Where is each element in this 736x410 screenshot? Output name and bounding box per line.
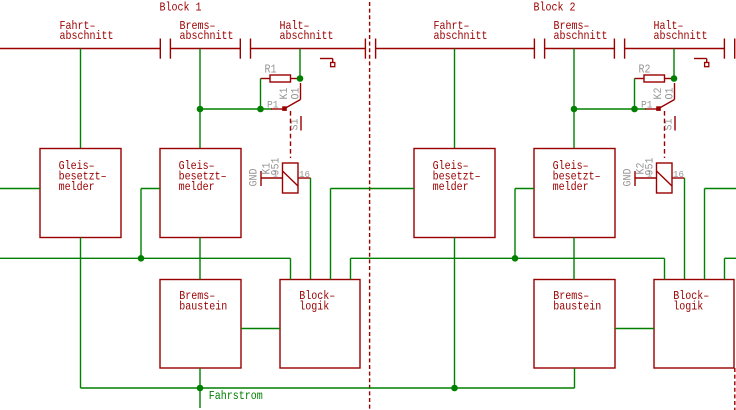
box Blocklogik block 1 <box>280 280 360 369</box>
wire GBM1 block1 down to Fahrstrom <box>80 238 82 389</box>
wire bus into Blocklogik pin1 block 1 <box>290 258 292 279</box>
contact S1 line block 1 <box>300 116 302 131</box>
wire bus from previous block into Blocklogik 1 <box>0 257 291 259</box>
wire Blocklogik 2 bus to next block <box>725 257 736 259</box>
svg-text:R2: R2 <box>639 63 651 76</box>
svg-text:abschnitt: abschnitt <box>60 30 114 43</box>
wire resistor left to P1 node block 1 <box>260 79 262 110</box>
wire Blocklogik 2 to next block <box>705 188 736 190</box>
wire GBM2 left input block 1 <box>141 189 160 259</box>
svg-text:P1: P1 <box>641 99 653 111</box>
junction GBM2 input on bus block 1 <box>138 255 145 262</box>
relay contact K2 pole P1 block 2 <box>645 107 660 111</box>
wire previous block logic to GBM1 block 1 <box>0 188 40 190</box>
wire Brems tap to P1 node block 1 <box>200 108 272 110</box>
Fahrstrom bus line <box>81 387 575 389</box>
wire Blocklogik 1 to GBM1 block 2 <box>331 188 415 190</box>
wire Blocklogik pin3 riser block 1 <box>330 189 332 280</box>
svg-text:melder: melder <box>553 181 589 194</box>
label Brems-abschnitt block 1 <box>180 20 234 43</box>
wire Halt rail tap block 1 <box>299 49 301 82</box>
svg-text:Fahrstrom: Fahrstrom <box>209 390 263 403</box>
junction resistor-left/P1 node block 1 <box>257 106 264 113</box>
label Halt-abschnitt block 2 <box>654 20 708 43</box>
svg-text:16: 16 <box>673 170 684 180</box>
svg-text:GND: GND <box>249 168 261 186</box>
svg-text:16: 16 <box>299 170 310 180</box>
box Bremsbaustein block 2 <box>534 280 615 369</box>
svg-text:baustein: baustein <box>553 300 601 313</box>
relay contact K1 pole P1 block 1 <box>271 107 286 111</box>
svg-text:GND: GND <box>623 168 635 186</box>
rail insulation gap bars <box>160 39 734 59</box>
wire relay pin16 to Block-logik block 1 <box>310 178 312 280</box>
wire Bremsbaustein 2 to Fahrstrom corner <box>574 368 576 388</box>
wire bus into Blocklogik pin1 block 2 <box>664 258 666 279</box>
svg-text:logik: logik <box>299 300 329 313</box>
svg-text:abschnitt: abschnitt <box>434 30 488 43</box>
label Fahrt-abschnitt block 1 <box>60 20 114 43</box>
box Bremsbaustein block 1 <box>160 280 241 369</box>
svg-text:S1: S1 <box>664 118 676 130</box>
junction Bremsbaustein 1 on Fahrstrom <box>197 385 204 392</box>
resistor R2 <box>635 75 675 82</box>
actuating link dashed K2 block 2 <box>664 111 666 158</box>
svg-text:abschnitt: abschnitt <box>654 30 708 43</box>
rail line segments <box>0 48 724 50</box>
svg-text:abschnitt: abschnitt <box>180 30 234 43</box>
junction resistor-left/P1 node block 2 <box>631 106 638 113</box>
svg-text:abschnitt: abschnitt <box>554 30 608 43</box>
wire Blocklogik pin3 riser block 2 <box>704 189 706 280</box>
svg-text:1: 1 <box>273 170 278 180</box>
box Blocklogik block 2 <box>654 280 734 369</box>
box Gleisbesetztmelder 1 block 1 <box>40 149 121 238</box>
wire Fahrt rail tap block 2 <box>454 49 456 149</box>
svg-text:P1: P1 <box>267 99 279 111</box>
svg-text:R1: R1 <box>265 63 277 76</box>
wire Blocklogik pin4 riser block 2 <box>724 258 726 279</box>
svg-text:melder: melder <box>59 181 95 194</box>
svg-text:O1: O1 <box>290 87 302 99</box>
svg-text:melder: melder <box>433 181 469 194</box>
switch blade P1-O1 block 2 <box>660 100 675 109</box>
label Fahrt-abschnitt block 2 <box>434 20 488 43</box>
wire Bremsbaustein 1 below Fahrstrom stub <box>199 368 201 408</box>
svg-text:baustein: baustein <box>179 300 227 313</box>
svg-text:melder: melder <box>179 181 215 194</box>
label Brems-abschnitt block 2 <box>554 20 608 43</box>
switch blade P1-O1 block 1 <box>286 100 301 109</box>
junction GBM1 block2 on Fahrstrom <box>451 385 458 392</box>
wire Brems rail tap block 2 <box>573 49 575 149</box>
box Gleisbesetztmelder 2 block 2 <box>534 149 615 238</box>
contact S1 line block 2 <box>674 116 676 131</box>
block boundary dashed line 2 <box>734 368 736 410</box>
svg-text:K1: K1 <box>279 87 291 99</box>
wire Bremsbaustein to Blocklogik block 1 <box>241 328 280 330</box>
junction GBM2 input on bus block 2 <box>512 255 519 262</box>
junction Halt tap / R1 / O1 node block 1 <box>297 75 304 82</box>
relay coil K2 <box>635 163 685 193</box>
junction Brems tap block 1 <box>197 106 204 113</box>
wire GBM2 left input block 2 <box>515 189 534 259</box>
wire Blocklogik pin4 riser block 1 <box>350 258 352 279</box>
wire Blocklogik 1 to Blocklogik 2 bus <box>351 257 665 259</box>
label Halt-abschnitt block 1 <box>280 20 334 43</box>
resistor R1 <box>261 75 301 82</box>
wire Halt rail tap block 2 <box>673 49 675 82</box>
wire Brems tap to P1 node block 2 <box>574 108 646 110</box>
wire GBM2 to Bremsbaustein block 1 <box>199 238 201 280</box>
actuating link dashed K1 block 1 <box>290 111 292 158</box>
svg-text:logik: logik <box>673 300 703 313</box>
rail feed contact symbol block 1 <box>320 59 335 67</box>
contact O1 line block 2 <box>674 83 676 100</box>
wire relay pin16 to Block-logik block 2 <box>684 178 686 280</box>
block boundary dashed line 1 <box>369 2 371 410</box>
svg-text:K2: K2 <box>653 88 665 100</box>
svg-text:S1: S1 <box>290 118 302 130</box>
rail feed contact symbol block 2 <box>694 59 709 67</box>
svg-text:O1: O1 <box>664 87 676 99</box>
wire GBM1 block2 down to Fahrstrom <box>454 238 456 389</box>
wire resistor left to P1 node block 2 <box>634 79 636 110</box>
svg-text:1: 1 <box>647 170 652 180</box>
svg-text:abschnitt: abschnitt <box>280 30 334 43</box>
contact O1 line block 1 <box>300 83 302 100</box>
box Gleisbesetztmelder 1 block 2 <box>414 149 495 238</box>
junction Brems tap block 2 <box>571 106 578 113</box>
wire Brems rail tap block 1 <box>199 49 201 149</box>
svg-text:Block 1: Block 1 <box>160 2 202 15</box>
junction Halt tap / R2 / O1 node block 2 <box>671 75 678 82</box>
svg-text:Block 2: Block 2 <box>534 2 576 15</box>
relay coil K1 <box>261 163 311 193</box>
wire GBM2 to Bremsbaustein block 2 <box>573 238 575 280</box>
wire Bremsbaustein to Blocklogik block 2 <box>615 328 654 330</box>
box Gleisbesetztmelder 2 block 1 <box>160 149 241 238</box>
wire Fahrt rail tap block 1 <box>80 49 82 149</box>
